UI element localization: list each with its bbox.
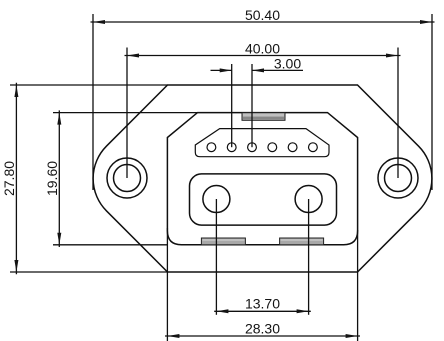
mounting hole right inner [385, 165, 412, 192]
dimension 13.70 [214, 199, 311, 315]
flange outline [93, 85, 432, 272]
pin 6 [309, 143, 318, 152]
svg-text:19.60: 19.60 [44, 161, 60, 196]
svg-text:28.30: 28.30 [245, 320, 280, 336]
mounting hole left inner [114, 165, 141, 192]
mounting hole left outer [107, 158, 147, 198]
pin 3 [248, 143, 257, 152]
housing body outline [167, 113, 357, 245]
dimension 28.30 [165, 228, 360, 341]
pin recess trapezoid [195, 129, 329, 157]
mounting hole right outer [378, 158, 418, 198]
svg-text:40.00: 40.00 [245, 41, 280, 57]
svg-text:13.70: 13.70 [245, 296, 280, 312]
contact hole right [295, 186, 322, 213]
svg-text:50.40: 50.40 [245, 7, 280, 23]
pin 1 [207, 143, 216, 152]
contact pocket rounded rect [190, 174, 337, 225]
svg-text:3.00: 3.00 [274, 55, 301, 71]
pin 4 [268, 143, 277, 152]
svg-text:27.80: 27.80 [1, 161, 17, 196]
dimension 50.40 [91, 14, 435, 190]
dimension 27.80 [10, 83, 168, 274]
bottom left tab (hatched) [201, 238, 245, 245]
top mounting tab (hatched) [242, 113, 285, 121]
bottom right tab (hatched) [280, 238, 324, 245]
dimension 19.60 [53, 110, 198, 247]
pin 5 [288, 143, 297, 152]
contact hole left [203, 186, 230, 213]
dimension 3.00 [211, 64, 304, 147]
dimension 40.00 [125, 48, 401, 179]
pin 2 [227, 143, 236, 152]
